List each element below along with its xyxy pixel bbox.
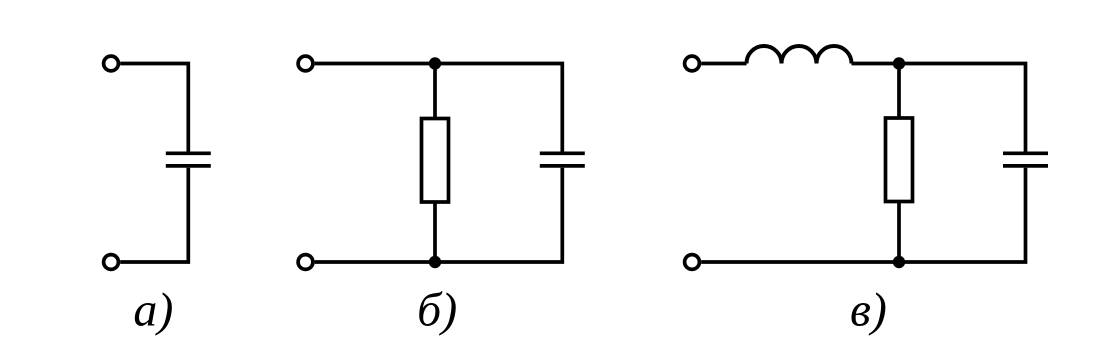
wire (capacitor bottom lead + bottom rail, circuit v) — [701, 168, 1025, 262]
wire (bottom rail, circuit a) — [120, 168, 188, 262]
node (bottom junction, circuit v) — [893, 256, 905, 268]
wire (resistor top lead, circuit v) — [897, 64, 901, 119]
terminal (input, top-left, circuit v) — [685, 56, 700, 71]
wire (top rail, circuit b) — [315, 64, 563, 152]
terminal (output, bottom-left, circuit v) — [685, 255, 700, 270]
node (top junction, circuit v) — [893, 57, 905, 69]
node (top junction, circuit b) — [429, 57, 441, 69]
wire (capacitor bottom lead + bottom rail, circuit b) — [315, 168, 563, 262]
wire (top rail, circuit a) — [120, 64, 188, 152]
resistor R (circuit v) — [886, 118, 913, 202]
node (bottom junction, circuit b) — [429, 256, 441, 268]
svg-text:б): б) — [417, 284, 457, 337]
wire (resistor bottom lead, circuit v) — [897, 202, 901, 263]
capacitor C (circuit v) — [1003, 153, 1048, 166]
terminal (output, bottom-left, circuit b) — [298, 255, 313, 270]
svg-text:а): а) — [133, 284, 173, 337]
svg-text:в): в) — [850, 284, 887, 337]
resistor R (circuit b) — [422, 119, 449, 203]
wire (resistor bottom lead, circuit b) — [433, 202, 437, 262]
terminal (output, bottom-left, circuit a) — [104, 255, 119, 270]
inductor L (circuit v) — [747, 46, 852, 64]
capacitor C (circuit b) — [540, 153, 585, 166]
wire (resistor top lead, circuit b) — [433, 64, 437, 119]
capacitor C (circuit a) — [166, 153, 211, 166]
wire (inductor to right corner, circuit v) — [852, 64, 1026, 152]
wire (input to inductor, circuit v) — [701, 62, 746, 66]
terminal (input, top-left, circuit a) — [104, 56, 119, 71]
terminal (input, top-left, circuit b) — [298, 56, 313, 71]
